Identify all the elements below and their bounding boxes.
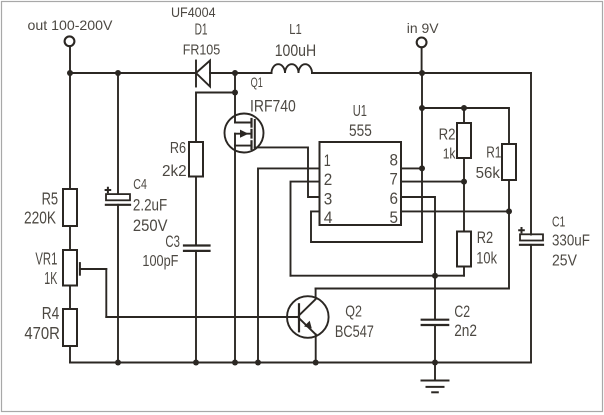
- svg-text:VR1: VR1: [35, 248, 57, 268]
- wire R2 1k top lead: [463, 108, 465, 123]
- node gnd Q1 source: [232, 360, 238, 366]
- node pin6-C2 junction: [432, 273, 438, 279]
- wire R5 to VR1: [69, 226, 71, 250]
- trimmer VR1: [63, 250, 77, 286]
- wire ground bus: [70, 362, 531, 364]
- wire Q1 gate to pin3: [255, 147, 320, 197]
- svg-text:1K: 1K: [44, 268, 57, 288]
- svg-text:7: 7: [390, 170, 398, 189]
- node R6 branch: [232, 90, 238, 96]
- node gnd Q2 emitter: [313, 360, 319, 366]
- wire C4 down to gnd bus: [117, 205, 119, 363]
- wire pin4: [311, 211, 422, 242]
- svg-text:2: 2: [324, 170, 333, 189]
- wire pin8: [401, 167, 422, 169]
- svg-text:R1: R1: [486, 144, 501, 161]
- wire R4 to gnd bus: [69, 346, 71, 363]
- svg-text:R4: R4: [42, 303, 60, 323]
- wire R6 branch: [196, 93, 235, 143]
- resistor R2 1k: [457, 123, 471, 158]
- svg-text:UF4004: UF4004: [171, 5, 216, 20]
- svg-text:C3: C3: [165, 232, 180, 251]
- svg-text:10k: 10k: [476, 250, 497, 268]
- wire pin2 to node: [291, 275, 465, 277]
- svg-text:470R: 470R: [24, 323, 60, 343]
- svg-text:330uF: 330uF: [552, 233, 590, 250]
- capacitor C1: [519, 228, 543, 245]
- svg-text:BC547: BC547: [335, 323, 374, 341]
- wire wiper down: [105, 269, 107, 317]
- node pin5-R1 junction: [506, 208, 512, 214]
- node R2 top: [461, 105, 467, 111]
- svg-text:C2: C2: [454, 303, 470, 321]
- wire pin6 node to C2: [434, 276, 436, 320]
- svg-text:3: 3: [324, 189, 333, 208]
- resistor R6: [189, 142, 203, 177]
- svg-text:100uH: 100uH: [275, 41, 317, 60]
- wire in9V rail down: [421, 73, 423, 242]
- svg-text:C1: C1: [552, 214, 565, 231]
- svg-text:250V: 250V: [133, 216, 168, 235]
- wire left rail down to R5: [69, 73, 71, 189]
- node gnd C2: [432, 360, 438, 366]
- transistor Q2: [287, 289, 329, 338]
- wire R2/R1 top branch: [422, 108, 509, 144]
- ground symbol: [422, 363, 449, 393]
- wire pin1: [258, 168, 320, 362]
- svg-text:1k: 1k: [443, 145, 456, 162]
- wire C4 branch down: [117, 73, 119, 194]
- svg-text:R5: R5: [42, 188, 59, 208]
- wire wiper right: [80, 268, 106, 270]
- terminal in 9V: [417, 38, 427, 48]
- wire R2 10k bottom lead: [463, 267, 465, 276]
- inductor L1: [272, 64, 313, 73]
- svg-text:R6: R6: [170, 140, 186, 157]
- node gnd C3: [193, 360, 199, 366]
- transistor Q1 mosfet: [225, 114, 264, 153]
- wire R2 1k to R2 10k: [463, 158, 465, 232]
- wire R1 bottom lead: [508, 180, 510, 211]
- node gnd pin1: [255, 360, 261, 366]
- wire Q1 source down to gnd bus: [234, 146, 236, 363]
- wire Q2 emitter down: [315, 334, 317, 362]
- wire C1 bottom to gnd bus: [530, 245, 532, 363]
- capacitor C3: [184, 246, 210, 251]
- wire C1 right rail top: [530, 73, 532, 235]
- svg-text:L1: L1: [289, 21, 302, 38]
- svg-text:8: 8: [390, 150, 399, 169]
- svg-text:6: 6: [390, 189, 399, 208]
- svg-text:555: 555: [349, 122, 372, 140]
- svg-text:5: 5: [390, 208, 399, 227]
- svg-text:IRF740: IRF740: [250, 97, 296, 116]
- wire pin5 node to Q2 collector: [316, 211, 509, 288]
- wire diode to L1: [210, 72, 272, 74]
- resistor R4: [63, 309, 77, 346]
- svg-text:FR105: FR105: [183, 42, 221, 59]
- svg-text:2k2: 2k2: [162, 163, 187, 180]
- node pin8 junction: [419, 165, 425, 171]
- wire Q1 drain: [234, 73, 236, 123]
- node C4 branch top: [115, 70, 121, 76]
- node in9V-bus junction: [419, 70, 425, 76]
- node pin7 junction: [461, 179, 467, 185]
- capacitor C4: [106, 188, 130, 205]
- wire R6 to C3: [195, 177, 197, 246]
- svg-text:4: 4: [324, 208, 333, 227]
- svg-text:220K: 220K: [24, 208, 56, 228]
- terminal out: [65, 36, 75, 46]
- svg-text:D1: D1: [195, 21, 208, 38]
- node R2R1 branch: [419, 105, 425, 111]
- svg-text:2n2: 2n2: [454, 322, 477, 340]
- wire C2 to gnd bus: [434, 325, 436, 363]
- svg-text:C4: C4: [133, 177, 147, 193]
- svg-text:U1: U1: [353, 103, 367, 120]
- svg-text:25V: 25V: [552, 253, 577, 270]
- wire L1 to right corner: [312, 72, 531, 74]
- svg-text:R2: R2: [439, 127, 456, 144]
- svg-text:2.2uF: 2.2uF: [133, 195, 167, 214]
- op-amp U1 555 box: [320, 142, 402, 225]
- svg-text:56k: 56k: [476, 165, 501, 182]
- wire C3 down to gnd bus: [195, 251, 197, 363]
- svg-text:1: 1: [324, 151, 331, 170]
- node Q1 drain branch: [232, 70, 238, 76]
- wire out terminal down: [69, 46, 71, 73]
- wire VR1 to R4: [69, 286, 71, 310]
- wire pin7: [401, 181, 464, 183]
- svg-text:Q2: Q2: [345, 304, 362, 321]
- wire pin6: [401, 197, 435, 276]
- svg-text:R2: R2: [477, 229, 493, 247]
- wire pin5: [401, 210, 509, 212]
- wire Q2 base: [106, 316, 298, 318]
- svg-text:out 100-200V: out 100-200V: [28, 17, 114, 33]
- wire in terminal down: [421, 47, 423, 73]
- wire pin2: [291, 182, 320, 276]
- node out-bus junction: [67, 70, 73, 76]
- diode D1: [196, 61, 210, 87]
- svg-text:in 9V: in 9V: [407, 20, 439, 36]
- node gnd C4: [115, 360, 121, 366]
- resistor R2 10k: [457, 232, 471, 267]
- wire top bus left: [70, 72, 196, 74]
- svg-text:Q1: Q1: [251, 74, 263, 90]
- capacitor C2: [422, 320, 449, 325]
- VR1 wiper tick: [79, 263, 81, 275]
- resistor R1: [502, 144, 516, 180]
- resistor R5: [63, 189, 77, 226]
- svg-text:100pF: 100pF: [142, 253, 178, 270]
